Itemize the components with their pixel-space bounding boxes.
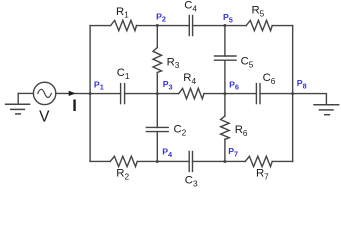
capacitor C2 — [146, 127, 168, 131]
wire top rail segment 2 — [137, 25, 190, 27]
wire P6 to R6 — [224, 94, 226, 116]
svg-text:P1: P1 — [94, 79, 104, 91]
svg-text:C6: C6 — [263, 72, 276, 86]
svg-text:R4: R4 — [183, 72, 196, 86]
svg-text:P6: P6 — [229, 79, 239, 91]
wire P5 to C5 — [224, 26, 226, 56]
resistor R7 — [245, 156, 272, 166]
svg-text:R7: R7 — [256, 168, 269, 182]
svg-text:I: I — [72, 97, 77, 115]
wire top rail segment 3 — [193, 25, 247, 27]
wire middle rail segment 3 — [204, 93, 256, 95]
svg-text:P3: P3 — [163, 79, 173, 91]
wire top rail segment 1 — [90, 25, 111, 27]
capacitor C6 — [256, 84, 260, 104]
node P2 — [156, 24, 159, 27]
svg-text:R6: R6 — [235, 124, 248, 138]
resistor R4 — [179, 88, 204, 98]
svg-text:P7: P7 — [228, 146, 238, 158]
node P4 — [156, 160, 159, 163]
wire P3 to C2 — [156, 94, 158, 128]
wire R6 to P7 — [224, 139, 226, 161]
resistor R3 — [153, 48, 162, 73]
node P6 — [223, 92, 226, 95]
capacitor C1 — [121, 84, 125, 104]
ground right — [314, 105, 339, 115]
svg-text:R5: R5 — [252, 4, 265, 18]
wire top rail segment 4 — [272, 25, 292, 27]
capacitor C5 — [215, 56, 237, 60]
svg-text:R3: R3 — [167, 56, 180, 70]
wire P8 to right ground — [293, 94, 327, 105]
wire middle rail segment 4 — [260, 93, 293, 95]
wire C5 to P6 — [224, 60, 226, 93]
wire bottom rail segment 1 — [90, 160, 110, 162]
wire left rail — [89, 26, 91, 162]
svg-text:C4: C4 — [184, 0, 197, 14]
wire middle rail segment 1 — [90, 93, 121, 95]
resistor R1 — [111, 20, 137, 30]
node P8 — [291, 92, 294, 95]
svg-text:C2: C2 — [174, 124, 187, 138]
node P7 — [223, 160, 226, 163]
node P5 — [223, 24, 226, 27]
wire — [18, 92, 33, 94]
svg-text:P8: P8 — [297, 78, 307, 90]
wire right rail — [292, 26, 294, 162]
svg-text:R1: R1 — [116, 6, 129, 20]
wire branch P2-P3 upper — [156, 26, 158, 48]
svg-text:P5: P5 — [223, 12, 233, 24]
svg-text:C1: C1 — [117, 67, 130, 81]
resistor R6 — [221, 116, 230, 139]
node P3 — [156, 92, 159, 95]
ground left — [6, 93, 30, 114]
resistor R5 — [246, 20, 272, 30]
svg-text:R2: R2 — [116, 168, 129, 182]
wire middle rail segment 2 — [125, 93, 179, 95]
svg-text:C3: C3 — [185, 175, 198, 189]
capacitor C4 — [189, 16, 192, 36]
svg-text:C5: C5 — [241, 55, 254, 69]
wire C2 to P4 — [156, 132, 158, 162]
wire bottom rail segment 4 — [272, 160, 292, 162]
wire bottom rail segment 3 — [193, 160, 246, 162]
current arrow I — [69, 91, 76, 96]
wire bottom rail segment 2 — [137, 160, 189, 162]
svg-text:V: V — [39, 109, 50, 126]
resistor R2 — [110, 156, 137, 166]
wire — [56, 92, 90, 94]
svg-text:P2: P2 — [156, 11, 166, 23]
svg-text:P4: P4 — [162, 147, 173, 159]
wire R3 to P3 — [156, 73, 158, 94]
node P1 — [89, 92, 92, 95]
voltage source V — [33, 82, 55, 104]
capacitor C3 — [189, 151, 192, 171]
